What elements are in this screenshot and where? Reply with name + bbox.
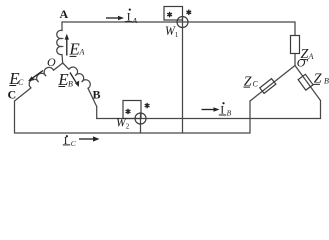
svg-text:A: A — [132, 16, 138, 25]
svg-text:A: A — [60, 7, 69, 21]
svg-text:B: B — [324, 76, 329, 85]
wire right vertical up to ZB branch — [320, 101, 322, 119]
svg-text:2: 2 — [126, 123, 130, 131]
svg-text:B: B — [227, 108, 232, 117]
label ZC (impedance) — [244, 74, 259, 89]
label ZA (impedance) — [300, 47, 313, 62]
svg-text:C: C — [253, 79, 259, 88]
winding (coil) phase C of source — [29, 67, 53, 88]
wattmeter W2 current-coil box — [123, 101, 141, 119]
wire ZC diagonal branch — [250, 66, 295, 102]
svg-text:B: B — [68, 79, 73, 88]
current arrow IC — [79, 138, 94, 140]
label EB (phasor emf) — [57, 70, 73, 89]
wire line B middle — [97, 118, 321, 120]
wire W1 voltage lead down to line C — [182, 17, 184, 134]
wattmeter W1 current-coil box — [164, 7, 183, 21]
wire B vertical drop — [96, 107, 98, 119]
polarity mark asterisk W2 beside circle — [145, 103, 149, 107]
polarity mark asterisk W1 inside box — [168, 12, 172, 16]
winding (coil) phase A of source — [57, 30, 62, 54]
label ZB (impedance) — [314, 72, 329, 87]
wire left vertical to bottom line — [14, 101, 16, 133]
emf arrow EB — [70, 73, 76, 83]
winding (coil) phase B of source — [69, 67, 90, 88]
svg-text:O: O — [47, 55, 56, 69]
emf arrow EC — [33, 71, 44, 79]
svg-text:C: C — [18, 78, 24, 87]
impedance ZC rectangle — [260, 79, 276, 94]
wattmeter W1 voltage-coil circle — [177, 17, 188, 28]
svg-text:1: 1 — [175, 31, 179, 39]
wire line A top — [62, 21, 295, 23]
wire coil C to terminal C — [15, 88, 32, 101]
label EA (phasor emf) — [68, 39, 84, 58]
svg-text:B: B — [93, 87, 101, 101]
svg-text:C: C — [71, 139, 77, 148]
svg-text:C: C — [8, 87, 17, 101]
current arrow IA — [106, 17, 119, 19]
wire A corner drop to source coil — [61, 22, 63, 31]
wire line C bottom — [15, 132, 251, 134]
polarity mark asterisk W2 inside box — [126, 109, 130, 113]
label EC (phasor emf) — [8, 69, 24, 88]
svg-text:A: A — [79, 48, 85, 57]
wire ZC vertical to line C — [249, 101, 251, 133]
wattmeter W2 voltage-coil circle — [135, 113, 146, 124]
emf arrow EA — [66, 39, 68, 56]
label IB (phasor current) — [219, 102, 232, 117]
wire node O to coil C — [54, 63, 63, 70]
wire coil A to node O — [61, 55, 64, 64]
wire O' to ZA — [294, 54, 296, 66]
wire node O to coil B — [63, 63, 69, 69]
impedance ZA rectangle — [291, 36, 300, 54]
wire W2 voltage lead down to line C — [140, 113, 142, 133]
label IC (phasor current) — [63, 135, 77, 148]
polarity mark asterisk W1 beside circle — [187, 10, 191, 14]
impedance ZB rectangle — [298, 74, 313, 90]
wire ZA to line A — [294, 22, 296, 36]
svg-text:A: A — [308, 52, 314, 61]
label IA (phasor current) — [125, 9, 138, 25]
current arrow IB — [202, 109, 215, 111]
wire ZB diagonal branch — [295, 66, 321, 101]
wire coil B to terminal B — [88, 88, 97, 106]
